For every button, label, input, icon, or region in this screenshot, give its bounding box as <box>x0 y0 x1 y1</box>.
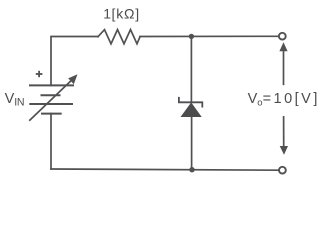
Vo arrow down (toward bottom terminal) <box>280 116 288 155</box>
wire left lower (battery to bottom) <box>50 114 52 169</box>
zener diode D1 triangle (anode) <box>181 102 202 117</box>
wire zener branch upper <box>190 37 192 103</box>
wire bottom (left corner to bottom terminal) <box>51 169 279 170</box>
resistor R (1 kOhm) zigzag <box>98 30 140 44</box>
Vo arrow up (toward top terminal) <box>279 42 287 85</box>
battery plus sign <box>36 71 43 77</box>
svg-text:VIN: VIN <box>5 91 25 109</box>
battery VIN plate 3 long (+) <box>29 103 73 105</box>
battery VIN plate 2 short (-) <box>41 94 61 96</box>
svg-text:Vo=10[V]: Vo=10[V] <box>248 91 320 108</box>
svg-text:1[kΩ]: 1[kΩ] <box>103 6 140 22</box>
terminal circle bottom right <box>279 167 286 174</box>
wire top (resistor to top terminal) <box>140 35 279 37</box>
wire zener branch lower <box>191 117 193 170</box>
junction dot bottom (node B) <box>189 167 194 172</box>
battery VIN plate 1 long (+) <box>29 84 74 86</box>
battery VIN plate 4 short (-) <box>41 113 62 115</box>
zener diode D1 cathode bar with hooks <box>179 97 202 108</box>
junction dot top (node A) <box>189 34 194 39</box>
wire top-left horizontal (corner to resistor) <box>51 37 98 86</box>
variable-source arrow through battery <box>29 74 77 121</box>
terminal circle top right <box>279 33 286 40</box>
